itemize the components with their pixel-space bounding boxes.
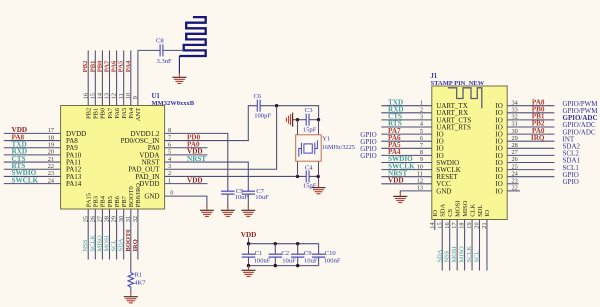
ground (U1 GND)	[206, 206, 208, 210]
svg-text:3: 3	[420, 114, 423, 121]
wire U1 GND pin to ground	[165, 196, 207, 208]
wire bank to ground	[248, 266, 250, 268]
crystal Y1 16MHz/3225	[296, 135, 322, 161]
capacitor C8	[159, 44, 161, 56]
capacitor C3 15pF	[305, 114, 307, 126]
wire J1 pin 22 (IO)	[507, 190, 520, 192]
svg-text:25: 25	[512, 163, 518, 170]
wire U1 pin 18 (PA8) / net PA8	[4, 140, 61, 142]
wire J1 pin 27 (IO)	[507, 154, 554, 156]
svg-text:PA4: PA4	[128, 107, 135, 119]
wire U1 pin 21 (PA11) / net CTS	[4, 161, 61, 163]
svg-text:17: 17	[48, 127, 54, 134]
wire J1 pin 24 (IO)	[507, 176, 554, 178]
node crystal left bottom	[296, 175, 299, 178]
svg-text:SDA: SDA	[440, 203, 447, 216]
capacitor C1 100nF	[248, 244, 250, 255]
svg-text:27: 27	[512, 149, 518, 156]
svg-text:22: 22	[48, 163, 54, 170]
svg-text:PA4: PA4	[125, 60, 132, 72]
svg-text:PA15: PA15	[86, 193, 93, 207]
ground (cap bank)	[248, 266, 250, 270]
svg-text:PB0: PB0	[96, 60, 103, 72]
wire J1 bottom pin 16 (CS) / net NSS	[449, 220, 451, 271]
svg-text:10uF: 10uF	[255, 194, 269, 201]
capacitor C4 15pF	[305, 170, 307, 182]
svg-text:MM32W0xxxB: MM32W0xxxB	[152, 100, 195, 107]
wire J1 bottom pin 14 (IO)	[434, 220, 436, 231]
svg-text:C4: C4	[305, 165, 313, 172]
svg-text:PB0: PB0	[100, 108, 107, 119]
svg-text:19: 19	[48, 141, 54, 148]
svg-text:21: 21	[48, 156, 54, 163]
wire VDDA (pin 5) stub / net VDD	[165, 154, 208, 156]
wire J1 pin 7 (IO) / net PA5	[381, 147, 432, 149]
wire J1 pin 25 (IO)	[507, 169, 554, 171]
svg-text:10uF: 10uF	[304, 258, 318, 265]
svg-text:PA7: PA7	[107, 107, 114, 119]
svg-text:31: 31	[125, 216, 132, 222]
wire J1 pin 10 (SWCLK) / net SWCLK	[381, 169, 432, 171]
svg-text:20: 20	[474, 222, 481, 228]
svg-text:MISO: MISO	[459, 246, 466, 263]
wire U1 top pin 14 / net PB0	[101, 50, 103, 105]
svg-text:0: 0	[170, 190, 173, 197]
svg-text:C6: C6	[254, 93, 262, 100]
svg-text:CLK: CLK	[469, 203, 476, 216]
svg-text:18: 18	[459, 222, 466, 228]
svg-text:PB6: PB6	[114, 195, 121, 207]
wire NRST (pin 4) to C7	[165, 162, 249, 191]
svg-text:C1: C1	[255, 250, 263, 257]
svg-text:GND: GND	[436, 187, 451, 195]
svg-text:12: 12	[417, 178, 423, 185]
wire J1 bottom pin 19 (CLK) / net SCLK	[471, 220, 473, 271]
svg-text:DVDD: DVDD	[139, 180, 159, 188]
wire J1 pin 29 (IO)	[507, 140, 554, 142]
svg-text:MISO: MISO	[96, 235, 103, 252]
wire U1 bottom pin 27 (PB4) / net MISO	[101, 209, 103, 260]
svg-text:32: 32	[132, 216, 139, 222]
svg-text:26: 26	[89, 216, 96, 222]
wire U1 bottom pin 29 (PB6) / net SCL	[116, 209, 118, 260]
ground (antenna)	[178, 73, 180, 77]
svg-text:100pF: 100pF	[254, 112, 271, 119]
wire U1 bottom pin 25 (PA15) / net NSS	[87, 209, 89, 260]
wire U1 bottom pin 28 (PB5) / net MOSI	[109, 209, 111, 260]
svg-text:PB3: PB3	[93, 196, 100, 207]
svg-text:8: 8	[420, 149, 423, 156]
wire R1 to ground	[130, 290, 132, 293]
wire J1 pin 26 (IO)	[507, 162, 554, 164]
wire U1 top pin 15 / net PB1	[94, 50, 96, 105]
svg-text:24: 24	[512, 170, 519, 177]
svg-text:16: 16	[82, 93, 89, 99]
svg-text:SDA: SDA	[436, 249, 443, 262]
svg-text:VDD: VDD	[241, 231, 257, 239]
wire U1 pin 23 (PA13) / net SWDIO	[4, 175, 61, 177]
wire VDD rail top	[249, 243, 319, 245]
svg-text:31: 31	[512, 121, 518, 128]
svg-text:C8: C8	[156, 38, 164, 45]
svg-text:1: 1	[420, 99, 423, 106]
wire J1 pin 8 (IO) / net PA4	[381, 154, 432, 156]
svg-text:SCL: SCL	[111, 240, 118, 252]
wire J1 GND pin 13 to ground	[400, 191, 432, 193]
svg-text:29: 29	[111, 216, 118, 222]
wire U1 pin 22 (PA12) / net RTS	[4, 168, 61, 170]
svg-text:30: 30	[118, 216, 125, 222]
svg-text:C3: C3	[305, 107, 313, 114]
svg-text:28: 28	[512, 142, 518, 149]
wire J1 pin 23 (IO)	[507, 183, 518, 185]
node crystal left top	[296, 118, 299, 121]
svg-text:GPIO: GPIO	[563, 178, 579, 186]
wire U1 pin 20 (PA10) / net RXD	[4, 154, 61, 156]
wire PA0 (pin 6) stub	[165, 147, 208, 149]
svg-text:100nF: 100nF	[254, 258, 271, 265]
svg-text:PA14: PA14	[66, 180, 82, 188]
svg-text:100nF: 100nF	[324, 258, 341, 265]
wire PAD_IN (pin 2) to crystal	[165, 175, 307, 177]
ground (R1)	[130, 292, 132, 296]
svg-text:9: 9	[420, 156, 423, 163]
wire J1 bottom pin 21 (IO)	[486, 220, 488, 271]
svg-text:33: 33	[512, 107, 518, 114]
svg-text:10uF: 10uF	[235, 194, 249, 201]
capacitor C9 10uF	[297, 244, 299, 255]
svg-text:9: 9	[132, 96, 139, 99]
svg-text:C2: C2	[281, 250, 289, 257]
wire C7 to ground	[247, 194, 249, 208]
wire J1 pin 12 (VCC) / net VDD	[381, 183, 432, 185]
svg-text:IO: IO	[495, 187, 502, 195]
svg-text:15pF: 15pF	[303, 183, 317, 190]
svg-text:MOSI: MOSI	[451, 246, 458, 262]
svg-text:PB2: PB2	[82, 60, 89, 72]
capacitor C2 10uF	[274, 244, 276, 255]
svg-text:17: 17	[451, 222, 458, 228]
svg-text:SCL: SCL	[474, 251, 481, 263]
svg-text:29: 29	[512, 135, 518, 142]
svg-text:NSS: NSS	[82, 239, 89, 251]
svg-text:IO: IO	[484, 210, 491, 217]
svg-text:34: 34	[512, 99, 519, 106]
antenna icon inside J1	[448, 88, 482, 109]
svg-text:BOOT0: BOOT0	[125, 229, 132, 251]
svg-text:PA7: PA7	[104, 60, 111, 72]
svg-text:VDD: VDD	[187, 176, 203, 184]
svg-text:SDL: SDL	[477, 204, 484, 216]
svg-text:PA5: PA5	[118, 60, 125, 72]
wire J1 pin 34 (IO)	[507, 105, 554, 107]
node OSC junction (PAD_OUT / C6)	[275, 104, 278, 107]
wire U1 top pin 12 / net PA6	[116, 50, 118, 105]
capacitor C7 10uF	[242, 190, 255, 192]
wire C4 right to ground corner	[309, 176, 319, 185]
svg-text:CS: CS	[447, 208, 454, 216]
svg-text:15pF: 15pF	[303, 127, 317, 134]
wire ANT pin to C8	[138, 49, 160, 51]
svg-text:BOOT0: BOOT0	[128, 186, 135, 207]
wire U1 top pin 16 / net PB2	[87, 50, 89, 105]
svg-text:5: 5	[420, 128, 423, 135]
wire PD0/OSC_IN (pin 7) to C6	[165, 106, 258, 141]
wire U1 pin 19 (PA9) / net TXD	[4, 147, 61, 149]
svg-text:IRQ: IRQ	[531, 134, 545, 142]
svg-text:18: 18	[48, 134, 54, 141]
svg-text:PA6: PA6	[114, 107, 121, 119]
wire J1 pin 6 (IO) / net PA6	[381, 140, 432, 142]
ground (C4)	[318, 183, 320, 187]
svg-text:24: 24	[48, 177, 55, 184]
node crystal right bottom	[317, 175, 320, 178]
svg-text:12: 12	[111, 93, 118, 99]
wire U1 top pin 13 / net PA7	[109, 50, 111, 105]
wire J1 pin 5 (IO) / net PA7	[381, 133, 432, 135]
svg-text:16MHz/3225: 16MHz/3225	[322, 144, 355, 151]
svg-text:PB8/IRQ: PB8/IRQ	[135, 183, 142, 208]
svg-text:NRST: NRST	[187, 155, 206, 163]
svg-text:IO: IO	[432, 210, 439, 217]
svg-text:28: 28	[104, 216, 111, 222]
wire U1 bottom pin 30 (PB7) / net SDA	[123, 209, 125, 260]
ground (C5)	[227, 206, 229, 210]
svg-text:14: 14	[429, 222, 436, 229]
wire C8 to antenna feed	[163, 49, 184, 51]
svg-text:SCLK: SCLK	[466, 246, 473, 263]
svg-text:STAMP PIN_NEW: STAMP PIN_NEW	[431, 80, 485, 87]
svg-text:Y1: Y1	[322, 136, 330, 143]
wire crystal top row (C3 row)	[294, 119, 306, 121]
svg-text:26: 26	[512, 156, 518, 163]
wire J1 pin 31 (IO)	[507, 126, 554, 128]
wire J1 pin 3 (UART_CTS) / net CTS	[381, 119, 432, 121]
svg-text:GPIO: GPIO	[360, 152, 376, 160]
wire crystal right pin	[318, 120, 320, 177]
node VDD rail dots	[247, 242, 250, 245]
wire U1 top pin 11 / net PA5	[123, 50, 125, 105]
svg-text:20: 20	[48, 149, 54, 156]
svg-text:NSS: NSS	[444, 250, 451, 262]
wire J1 pin 30 (IO)	[507, 133, 554, 135]
svg-text:PB5: PB5	[107, 196, 114, 207]
svg-text:25: 25	[82, 216, 89, 222]
svg-text:PA5: PA5	[121, 108, 128, 119]
node crystal right top	[317, 118, 320, 121]
svg-text:11: 11	[417, 170, 423, 177]
svg-text:PB4: PB4	[100, 195, 107, 207]
wire antenna ground stub	[178, 56, 180, 74]
wire J1 pin 33 (IO)	[507, 112, 554, 114]
svg-text:22: 22	[512, 185, 518, 192]
svg-text:6: 6	[420, 135, 423, 142]
svg-text:21: 21	[481, 222, 488, 228]
svg-text:R1: R1	[135, 271, 143, 278]
svg-text:MOSI: MOSI	[104, 235, 111, 251]
node bottom rail dots	[247, 264, 250, 267]
svg-text:PB7: PB7	[121, 195, 128, 207]
svg-text:MOSI: MOSI	[454, 201, 461, 217]
svg-text:13: 13	[104, 93, 111, 99]
wire U1 pin 24 (PA14) / net SWCLK	[4, 183, 61, 185]
svg-text:C10: C10	[325, 250, 337, 257]
svg-text:10: 10	[125, 93, 132, 99]
svg-text:23: 23	[48, 170, 54, 177]
svg-text:PB2: PB2	[86, 108, 93, 119]
capacitor C10 100nF	[318, 244, 320, 255]
wire crystal left pin	[297, 120, 299, 177]
connector J1 STAMP PIN_NEW body	[432, 86, 507, 220]
wire U1 bottom pin 26 (PB3) / net SCLK	[94, 209, 96, 260]
wire J1 pin 32 (IO)	[507, 119, 554, 121]
ground (J1 GND)	[399, 192, 401, 196]
svg-text:15: 15	[436, 222, 443, 228]
wire J1 pin 11 (RESET) / net NRST	[381, 176, 432, 178]
svg-text:MISO: MISO	[462, 200, 469, 217]
svg-text:30: 30	[512, 128, 518, 135]
svg-text:VDD: VDD	[388, 177, 404, 185]
wire U1 pin 17 (DVDD) / net VDD	[4, 132, 61, 134]
svg-text:16: 16	[444, 222, 451, 228]
capacitor C5 10uF	[221, 190, 234, 192]
wire J1 pin 2 (UART_RX) / net RXD	[381, 112, 432, 114]
wire J1 pin 4 (UART_RTS) / net RTS	[381, 126, 432, 128]
wire J1 pin 9 (SWDIO) / net SWDIO	[381, 162, 432, 164]
wire U1 bottom pin 31 (BOOT0) / net BOOT0	[130, 209, 132, 271]
wire J1 bottom pin 20 (SDL) / net SCL	[479, 220, 481, 271]
wire J1 pin 28 (IO)	[507, 147, 554, 149]
svg-text:4K7: 4K7	[134, 280, 146, 287]
wire VDD rail bottom	[249, 265, 319, 267]
wire J1 bottom pin 17 (MOSI) / net MOSI	[456, 220, 458, 271]
wire DVDD (pin 1) stub / net VDD	[165, 183, 208, 185]
capacitor C6 100pF	[256, 100, 258, 112]
svg-text:ANT: ANT	[135, 108, 142, 121]
IC U1 MM32W0xxxB MCU body	[61, 106, 165, 210]
wire C5 to ground	[227, 194, 229, 208]
wire PAD_OUT (pin 3) up to OSC node	[165, 106, 277, 170]
svg-text:PB1: PB1	[89, 61, 96, 73]
svg-text:SWCLK: SWCLK	[12, 176, 39, 184]
svg-text:23: 23	[512, 178, 518, 185]
wire J1 bottom pin 15 (SDA) / net SDA	[441, 220, 443, 271]
svg-text:SDA: SDA	[118, 238, 125, 251]
antenna ANT (meander PCB antenna)	[179, 17, 205, 56]
wire DVDD1.2 (pin 8) to C5	[165, 133, 228, 191]
svg-text:32: 32	[512, 114, 518, 121]
svg-text:C9: C9	[304, 250, 312, 257]
svg-text:10: 10	[417, 163, 423, 170]
wire J1 bottom pin 18 (MISO) / net MISO	[464, 220, 466, 271]
wire U1 bottom pin 32 (PB8/IRQ) / net IRQ	[137, 209, 139, 260]
svg-text:IRQ: IRQ	[132, 239, 139, 251]
wire J1 pin 1 (UART_TX) / net TXD	[381, 105, 432, 107]
svg-text:15: 15	[89, 93, 96, 99]
svg-text:27: 27	[97, 216, 104, 222]
svg-text:U1: U1	[152, 93, 161, 100]
svg-text:PA6: PA6	[111, 60, 118, 72]
resistor R1 4K7	[128, 271, 133, 290]
svg-text:19: 19	[466, 222, 473, 228]
svg-text:3.3nF: 3.3nF	[157, 58, 173, 65]
svg-text:SCLK: SCLK	[89, 235, 96, 252]
wire C6 to crystal node	[260, 106, 319, 120]
svg-text:GND: GND	[144, 193, 159, 201]
wire U1 top pin 10 / net PA4	[130, 50, 132, 105]
svg-text:PB1: PB1	[93, 108, 100, 119]
svg-text:10uF: 10uF	[282, 258, 296, 265]
ground (C3, sideways)	[293, 119, 297, 121]
ground (C7)	[247, 206, 249, 210]
wire U1 ANT pin 9 up to C8 row	[137, 50, 139, 105]
svg-text:2: 2	[420, 107, 423, 114]
svg-text:14: 14	[97, 92, 104, 99]
svg-text:7: 7	[420, 142, 423, 149]
svg-text:11: 11	[118, 93, 125, 99]
